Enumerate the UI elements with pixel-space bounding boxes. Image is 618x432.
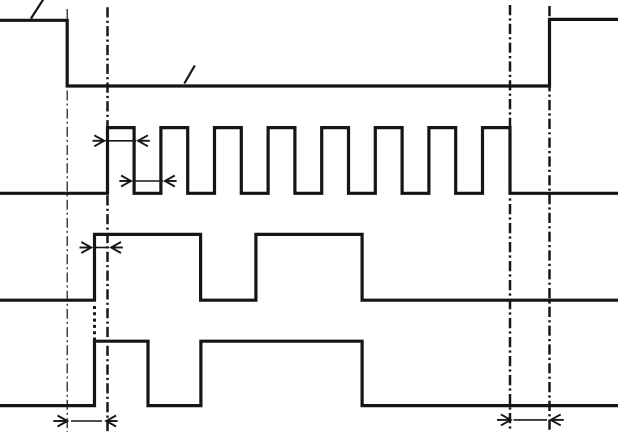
timing reference line T3 (dash-dot, thick, x=510) xyxy=(509,5,512,194)
dimension C right arrow xyxy=(111,242,121,253)
signal 2 waveform (clock, 8 pulses) xyxy=(0,128,618,194)
dimension D: T1 to T2 spacing at bottom, measure line xyxy=(71,420,102,422)
dimension A right arrow (points left, tip at falling edge) xyxy=(138,135,148,146)
dimension D left arrow (tip at T1) xyxy=(58,416,68,427)
dimension C left arrow xyxy=(81,242,91,253)
signal 1 break slash on low level xyxy=(184,66,195,84)
signal 4 waveform xyxy=(0,341,618,405)
signal 1 break slash on high level xyxy=(31,0,44,19)
dimension A left arrow (points right, tip at rising edge) xyxy=(94,135,104,146)
timing reference line T2 (dash-dot, thick, x=107.5) xyxy=(106,7,109,432)
timing reference line T4 (dash-dot, thick, x=549.5) xyxy=(548,6,551,432)
dimension B left arrow xyxy=(121,176,131,187)
dimension E: T3 to T4 spacing at bottom, measure line xyxy=(514,419,548,421)
signal 3 waveform xyxy=(0,234,618,300)
dimension E right arrow (tip at T4) xyxy=(551,414,561,425)
timing reference line T1 (dash-dot, thin, x=67) xyxy=(66,9,68,22)
dimension D right arrow (tip at T2) xyxy=(106,416,116,427)
dimension E left arrow (tip at T3) xyxy=(501,414,511,425)
dimension A: clock high pulse width, measure line xyxy=(106,140,137,142)
dimension B right arrow xyxy=(165,176,175,187)
signal 1 waveform (chip-select, active low) xyxy=(0,19,618,86)
dimension B: clock low pulse width, measure line xyxy=(133,180,164,182)
dimension C: signal3 rising edge to T2, measure line xyxy=(93,247,109,249)
dotted edge-alignment connector at x=94.5 between signal 3 low and signal 4 high xyxy=(93,306,96,341)
